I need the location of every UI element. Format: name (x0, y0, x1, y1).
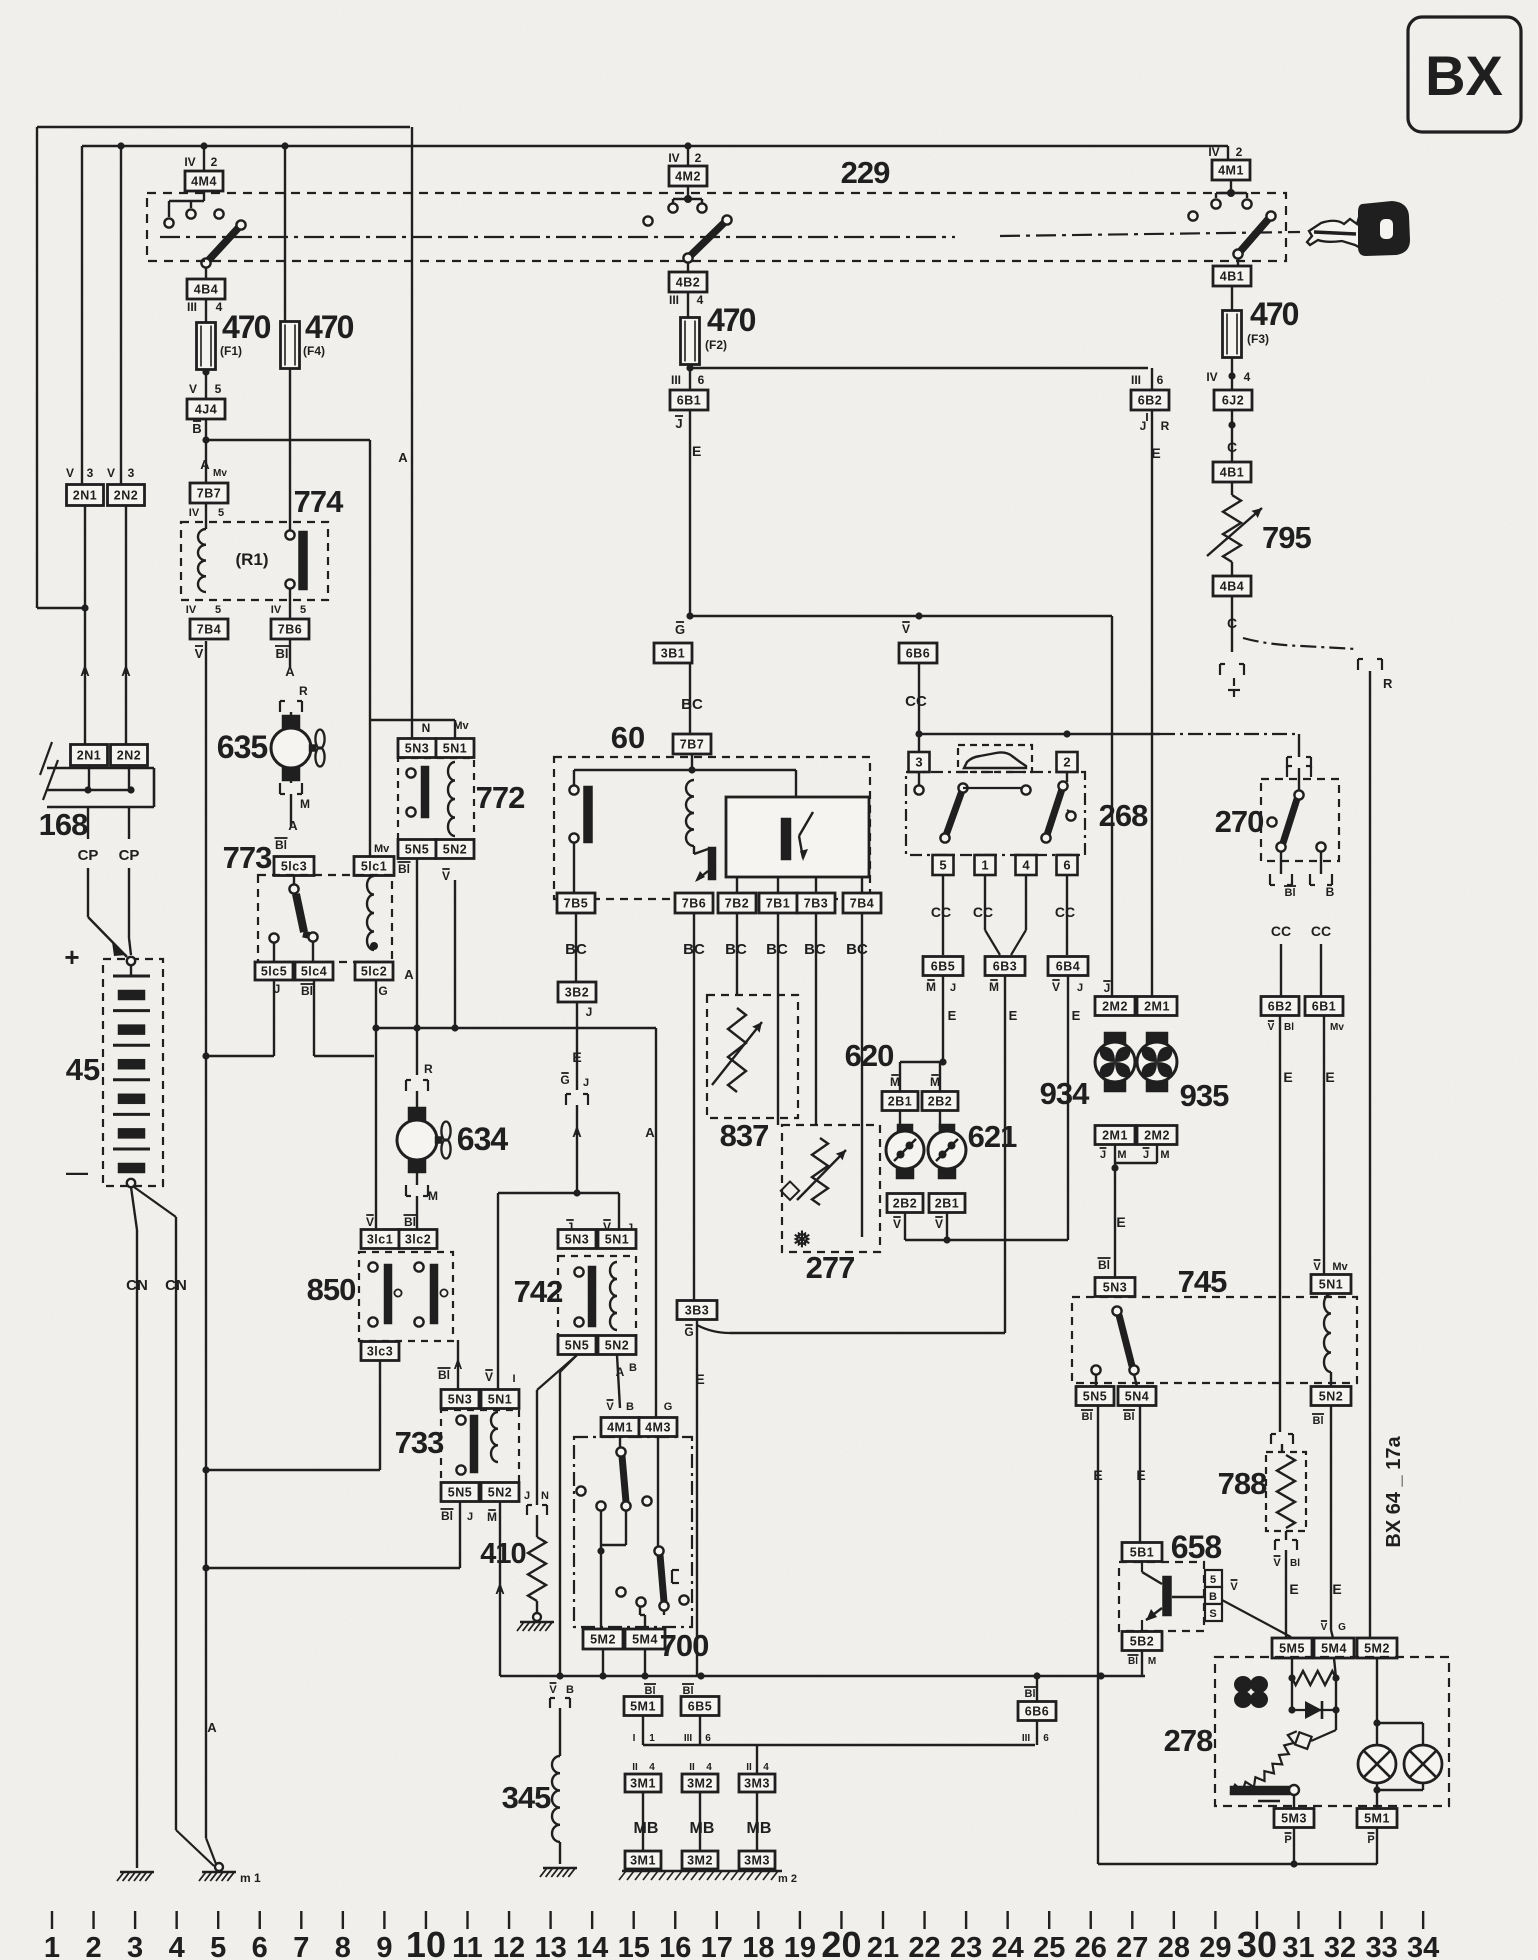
svg-text:837: 837 (720, 1118, 769, 1153)
svg-text:3M3: 3M3 (744, 1854, 770, 1868)
svg-text:C: C (1227, 439, 1237, 455)
svg-text:CC: CC (973, 904, 993, 920)
svg-text:m 2: m 2 (778, 1873, 797, 1885)
svg-text:4J4: 4J4 (195, 403, 217, 417)
svg-text:I: I (633, 1733, 636, 1744)
svg-text:3M1: 3M1 (630, 1854, 656, 1868)
svg-text:6: 6 (252, 1932, 268, 1960)
svg-text:2M2: 2M2 (1102, 1000, 1128, 1014)
svg-text:6B6: 6B6 (906, 647, 930, 661)
svg-text:❅: ❅ (793, 1227, 811, 1252)
svg-text:5M4: 5M4 (1321, 1642, 1347, 1656)
svg-text:5N1: 5N1 (443, 742, 467, 756)
svg-text:V: V (366, 1215, 374, 1229)
svg-text:3M2: 3M2 (687, 1777, 713, 1791)
svg-text:621: 621 (968, 1119, 1017, 1154)
svg-text:5: 5 (300, 604, 306, 616)
svg-text:7B1: 7B1 (766, 897, 790, 911)
svg-text:4: 4 (649, 1762, 655, 1773)
svg-text:268: 268 (1099, 798, 1148, 833)
svg-text:R: R (1161, 419, 1170, 433)
svg-text:24: 24 (992, 1932, 1024, 1960)
svg-text:G: G (560, 1073, 569, 1087)
svg-text:IV: IV (1206, 370, 1217, 384)
svg-text:2: 2 (211, 155, 218, 169)
svg-text:3B3: 3B3 (685, 1304, 709, 1318)
svg-text:V: V (1268, 1022, 1275, 1033)
svg-text:A: A (288, 818, 298, 833)
svg-text:B: B (1209, 1591, 1217, 1603)
svg-text:5N5: 5N5 (448, 1486, 472, 1500)
svg-text:13: 13 (534, 1932, 566, 1960)
svg-text:M: M (926, 980, 936, 994)
svg-text:G: G (1338, 1622, 1346, 1633)
svg-text:5N2: 5N2 (488, 1486, 512, 1500)
svg-text:J: J (1077, 982, 1083, 994)
svg-text:5lc1: 5lc1 (361, 860, 387, 874)
svg-text:7B3: 7B3 (804, 897, 828, 911)
svg-text:N: N (422, 721, 431, 735)
svg-text:1: 1 (649, 1733, 655, 1744)
svg-text:2N2: 2N2 (114, 489, 138, 503)
svg-text:Bl: Bl (301, 984, 313, 998)
svg-text:28: 28 (1158, 1932, 1190, 1960)
svg-text:634: 634 (457, 1121, 509, 1157)
svg-text:6B1: 6B1 (677, 394, 701, 408)
svg-text:—: — (66, 1160, 88, 1185)
svg-text:32: 32 (1324, 1932, 1356, 1960)
svg-text:Bl: Bl (1128, 1656, 1138, 1667)
svg-text:V: V (442, 869, 450, 883)
svg-text:7B5: 7B5 (564, 897, 588, 911)
svg-text:5B1: 5B1 (1130, 1546, 1154, 1560)
svg-text:Bl: Bl (1098, 1258, 1110, 1272)
svg-text:3B2: 3B2 (565, 986, 589, 1000)
svg-text:7B4: 7B4 (850, 897, 874, 911)
svg-text:6: 6 (1063, 858, 1070, 873)
svg-text:6B2: 6B2 (1138, 394, 1162, 408)
svg-text:E: E (1072, 1008, 1081, 1023)
svg-text:M: M (1117, 1149, 1126, 1161)
svg-text:5N5: 5N5 (565, 1339, 589, 1353)
svg-text:V: V (1321, 1622, 1328, 1633)
svg-text:470: 470 (707, 302, 756, 338)
svg-text:4M4: 4M4 (191, 175, 217, 189)
svg-text:31: 31 (1282, 1932, 1314, 1960)
svg-text:Mv: Mv (213, 468, 227, 479)
svg-text:B: B (1326, 885, 1335, 899)
svg-text:M: M (428, 1189, 438, 1203)
svg-text:Bl: Bl (1124, 1411, 1135, 1423)
svg-text:658: 658 (1171, 1529, 1222, 1565)
svg-text:V: V (107, 466, 115, 480)
svg-text:168: 168 (39, 807, 88, 842)
svg-text:470: 470 (305, 309, 354, 345)
svg-text:6J2: 6J2 (1222, 394, 1244, 408)
svg-text:R: R (1383, 676, 1393, 691)
svg-text:5M4: 5M4 (632, 1633, 658, 1647)
svg-text:745: 745 (1178, 1264, 1227, 1299)
svg-text:E: E (1151, 445, 1160, 461)
svg-text:850: 850 (307, 1272, 356, 1307)
svg-text:III: III (671, 373, 681, 387)
svg-text:2B1: 2B1 (935, 1197, 959, 1211)
svg-text:R: R (424, 1062, 433, 1076)
svg-text:17: 17 (701, 1932, 733, 1960)
svg-text:4M1: 4M1 (607, 1421, 633, 1435)
svg-text:V: V (189, 382, 197, 396)
svg-text:J: J (586, 1005, 593, 1019)
svg-text:4M3: 4M3 (645, 1421, 671, 1435)
svg-text:5B2: 5B2 (1130, 1635, 1154, 1649)
svg-text:60: 60 (611, 720, 645, 755)
svg-text:V: V (1313, 1261, 1321, 1273)
svg-text:700: 700 (660, 1628, 709, 1663)
svg-text:BX 64 _ 17a: BX 64 _ 17a (1383, 1436, 1405, 1548)
svg-text:(F4): (F4) (303, 344, 325, 358)
svg-text:V: V (549, 1684, 557, 1696)
svg-text:Bl: Bl (1284, 1022, 1294, 1033)
svg-text:A: A (645, 1125, 655, 1140)
svg-text:29: 29 (1199, 1932, 1231, 1960)
svg-text:III: III (1131, 373, 1141, 387)
svg-text:A: A (495, 1582, 505, 1597)
svg-text:9: 9 (376, 1932, 392, 1960)
svg-text:774: 774 (294, 484, 344, 519)
svg-text:E: E (1283, 1069, 1292, 1085)
svg-text:30: 30 (1237, 1924, 1277, 1960)
svg-text:J: J (1104, 981, 1111, 995)
svg-text:2B2: 2B2 (928, 1095, 952, 1109)
svg-text:IV: IV (271, 604, 282, 616)
svg-text:M: M (1148, 1656, 1156, 1667)
svg-text:E: E (1009, 1008, 1018, 1023)
svg-text:5N3: 5N3 (448, 1393, 472, 1407)
svg-text:5N5: 5N5 (405, 843, 429, 857)
svg-text:V: V (1230, 1581, 1238, 1593)
svg-text:M: M (989, 980, 999, 994)
svg-text:CN: CN (165, 1277, 187, 1294)
svg-text:Bl: Bl (1290, 1558, 1300, 1569)
svg-text:34: 34 (1407, 1932, 1439, 1960)
svg-text:5N1: 5N1 (488, 1393, 512, 1407)
svg-text:M: M (300, 797, 310, 811)
svg-text:4: 4 (706, 1762, 712, 1773)
svg-text:470: 470 (222, 309, 271, 345)
svg-text:1: 1 (44, 1932, 60, 1960)
svg-text:26: 26 (1075, 1932, 1107, 1960)
svg-text:7B7: 7B7 (680, 738, 704, 752)
svg-text:E: E (1116, 1214, 1125, 1230)
svg-text:7B4: 7B4 (197, 623, 221, 637)
svg-text:23: 23 (950, 1932, 982, 1960)
svg-text:IV: IV (189, 507, 200, 519)
svg-text:(R1): (R1) (235, 550, 268, 569)
svg-text:V: V (485, 1370, 493, 1384)
svg-text:+: + (64, 942, 79, 972)
svg-text:5lc4: 5lc4 (301, 965, 327, 979)
svg-text:620: 620 (845, 1038, 894, 1073)
svg-text:18: 18 (742, 1932, 774, 1960)
svg-text:5N2: 5N2 (443, 843, 467, 857)
svg-text:10: 10 (406, 1924, 446, 1960)
svg-text:470: 470 (1250, 296, 1299, 332)
svg-text:IV: IV (1208, 145, 1219, 159)
svg-text:2: 2 (695, 151, 702, 165)
svg-text:E: E (692, 443, 701, 459)
svg-text:II: II (746, 1762, 752, 1773)
svg-text:934: 934 (1040, 1076, 1090, 1111)
svg-text:V: V (195, 646, 204, 661)
svg-text:A: A (404, 967, 414, 982)
svg-text:277: 277 (806, 1250, 855, 1285)
svg-text:2N1: 2N1 (73, 489, 97, 503)
svg-text:6: 6 (1043, 1733, 1049, 1744)
svg-text:Bl: Bl (438, 1368, 450, 1382)
svg-text:B: B (192, 421, 201, 436)
svg-text:Bl: Bl (404, 1215, 416, 1229)
svg-text:6B2: 6B2 (1268, 1000, 1292, 1014)
svg-text:III: III (1022, 1733, 1031, 1744)
svg-text:2N1: 2N1 (77, 749, 101, 763)
svg-text:E: E (572, 1049, 581, 1065)
svg-text:2: 2 (85, 1932, 101, 1960)
svg-text:7: 7 (293, 1932, 309, 1960)
svg-text:7B6: 7B6 (682, 897, 706, 911)
svg-text:IV: IV (668, 151, 679, 165)
svg-text:BC: BC (846, 941, 868, 958)
svg-text:5N1: 5N1 (605, 1233, 629, 1247)
svg-text:773: 773 (223, 840, 272, 875)
svg-text:6B5: 6B5 (688, 1700, 712, 1714)
svg-text:5N3: 5N3 (565, 1233, 589, 1247)
svg-text:5: 5 (215, 604, 221, 616)
svg-text:5N4: 5N4 (1125, 1390, 1149, 1404)
svg-text:6: 6 (705, 1733, 711, 1744)
svg-text:3: 3 (128, 466, 135, 480)
svg-text:J: J (467, 1511, 473, 1523)
svg-text:5: 5 (218, 507, 224, 519)
svg-text:V: V (902, 622, 910, 636)
svg-text:(F1): (F1) (220, 344, 242, 358)
svg-text:2: 2 (1063, 755, 1070, 770)
svg-text:m 1: m 1 (240, 1871, 261, 1885)
svg-text:Mv: Mv (1330, 1022, 1344, 1033)
svg-text:410: 410 (480, 1538, 525, 1570)
svg-text:V: V (606, 1401, 614, 1413)
svg-text:E: E (948, 1008, 957, 1023)
svg-text:J: J (675, 416, 682, 431)
svg-text:CC: CC (931, 904, 951, 920)
svg-text:V: V (1052, 980, 1060, 994)
svg-text:G: G (378, 984, 387, 998)
svg-text:5M1: 5M1 (630, 1700, 656, 1714)
svg-text:M: M (487, 1510, 497, 1524)
svg-text:33: 33 (1365, 1932, 1397, 1960)
svg-text:MB: MB (634, 1820, 659, 1837)
svg-text:Bl: Bl (398, 862, 410, 876)
svg-text:J: J (1140, 419, 1147, 433)
svg-text:229: 229 (841, 155, 890, 190)
svg-text:4B4: 4B4 (194, 283, 218, 297)
svg-text:5: 5 (1210, 1574, 1216, 1586)
svg-text:6B1: 6B1 (1312, 1000, 1336, 1014)
svg-text:733: 733 (395, 1425, 444, 1460)
svg-text:742: 742 (514, 1274, 563, 1309)
svg-text:5N5: 5N5 (1083, 1390, 1107, 1404)
svg-text:P: P (1367, 1834, 1374, 1846)
svg-text:V: V (1273, 1557, 1281, 1569)
svg-text:BX: BX (1425, 44, 1503, 107)
svg-text:C: C (1227, 615, 1237, 631)
svg-text:Bl: Bl (275, 838, 287, 852)
svg-text:Bl: Bl (441, 1509, 453, 1523)
svg-text:7B6: 7B6 (278, 623, 302, 637)
svg-text:4: 4 (169, 1932, 185, 1960)
svg-text:A: A (121, 664, 131, 679)
svg-text:795: 795 (1262, 520, 1311, 555)
svg-text:N: N (541, 1490, 549, 1502)
svg-text:G: G (664, 1401, 673, 1413)
svg-text:A: A (285, 664, 295, 679)
svg-text:6: 6 (698, 373, 705, 387)
svg-text:CP: CP (119, 847, 140, 864)
svg-text:III: III (669, 293, 679, 307)
svg-text:3: 3 (127, 1932, 143, 1960)
svg-text:BC: BC (681, 696, 703, 713)
svg-text:R: R (299, 684, 308, 698)
svg-text:2B1: 2B1 (888, 1095, 912, 1109)
svg-text:27: 27 (1116, 1932, 1148, 1960)
svg-text:E: E (1332, 1581, 1341, 1597)
svg-text:6B6: 6B6 (1025, 1705, 1049, 1719)
svg-text:J: J (950, 982, 956, 994)
svg-text:22: 22 (908, 1932, 940, 1960)
svg-text:J: J (1143, 1149, 1149, 1161)
svg-text:788: 788 (1218, 1466, 1267, 1501)
svg-text:2B2: 2B2 (893, 1197, 917, 1211)
svg-text:Mv: Mv (374, 843, 390, 855)
svg-text:5lc3: 5lc3 (281, 860, 307, 874)
svg-text:14: 14 (576, 1932, 608, 1960)
svg-text:P: P (1284, 1834, 1291, 1846)
svg-text:G: G (675, 622, 685, 637)
svg-text:3B1: 3B1 (661, 647, 685, 661)
svg-text:19: 19 (784, 1932, 816, 1960)
svg-text:IV: IV (186, 604, 197, 616)
svg-text:II: II (689, 1762, 695, 1773)
svg-text:6: 6 (1157, 373, 1164, 387)
svg-text:V: V (935, 1217, 943, 1231)
svg-text:M: M (930, 1075, 940, 1089)
svg-text:4B1: 4B1 (1220, 270, 1244, 284)
svg-text:7B2: 7B2 (725, 897, 749, 911)
svg-text:3: 3 (915, 755, 922, 770)
svg-text:CC: CC (1055, 904, 1075, 920)
svg-text:MB: MB (690, 1820, 715, 1837)
svg-text:Bl: Bl (276, 646, 289, 661)
svg-text:772: 772 (476, 780, 525, 815)
svg-text:B: B (566, 1684, 574, 1696)
svg-text:5N2: 5N2 (1319, 1390, 1343, 1404)
svg-text:21: 21 (867, 1932, 899, 1960)
svg-text:V: V (893, 1217, 901, 1231)
svg-text:CC: CC (1311, 923, 1331, 939)
svg-text:A: A (572, 1125, 582, 1140)
svg-text:B: B (629, 1362, 637, 1374)
svg-text:A: A (207, 1720, 217, 1735)
svg-text:5M2: 5M2 (590, 1633, 616, 1647)
svg-text:5M2: 5M2 (1364, 1642, 1390, 1656)
svg-text:J: J (524, 1490, 530, 1502)
svg-text:5M1: 5M1 (1364, 1812, 1390, 1826)
svg-text:3M2: 3M2 (687, 1854, 713, 1868)
svg-text:4M1: 4M1 (1218, 164, 1244, 178)
svg-text:4: 4 (697, 293, 704, 307)
svg-text:5N2: 5N2 (605, 1339, 629, 1353)
svg-text:CC: CC (1271, 923, 1291, 939)
svg-text:4B1: 4B1 (1220, 466, 1244, 480)
svg-text:3lc1: 3lc1 (367, 1233, 393, 1247)
svg-text:3: 3 (87, 466, 94, 480)
svg-text:A: A (398, 450, 408, 465)
svg-text:B: B (626, 1401, 634, 1413)
svg-text:5lc2: 5lc2 (361, 965, 387, 979)
svg-text:5N1: 5N1 (1319, 1278, 1343, 1292)
svg-text:270: 270 (1215, 804, 1264, 839)
svg-text:MB: MB (747, 1820, 772, 1837)
svg-text:4: 4 (763, 1762, 769, 1773)
svg-text:4B2: 4B2 (676, 276, 700, 290)
svg-text:IV: IV (184, 155, 195, 169)
svg-text:3M3: 3M3 (744, 1777, 770, 1791)
svg-text:Bl: Bl (1082, 1411, 1093, 1423)
svg-text:III: III (684, 1733, 693, 1744)
svg-text:5lc5: 5lc5 (261, 965, 287, 979)
svg-text:A: A (200, 457, 210, 472)
svg-text:8: 8 (335, 1932, 351, 1960)
svg-text:M: M (1160, 1149, 1169, 1161)
svg-text:S: S (1209, 1608, 1216, 1620)
svg-text:278: 278 (1164, 1723, 1213, 1758)
svg-text:4B4: 4B4 (1220, 580, 1244, 594)
svg-text:25: 25 (1033, 1932, 1065, 1960)
svg-text:CC: CC (905, 693, 927, 710)
svg-text:Bl: Bl (1025, 1688, 1036, 1700)
svg-text:Bl: Bl (1285, 887, 1296, 899)
svg-text:M: M (890, 1075, 900, 1089)
svg-text:J: J (1100, 1149, 1106, 1161)
svg-text:E: E (1289, 1581, 1298, 1597)
svg-text:5N3: 5N3 (1103, 1281, 1127, 1295)
svg-text:7B7: 7B7 (197, 487, 221, 501)
svg-text:12: 12 (493, 1932, 525, 1960)
svg-text:345: 345 (502, 1780, 551, 1815)
svg-text:5: 5 (939, 858, 946, 873)
svg-text:G: G (684, 1325, 693, 1339)
svg-text:E: E (1325, 1069, 1334, 1085)
svg-text:16: 16 (659, 1932, 691, 1960)
svg-text:2M1: 2M1 (1144, 1000, 1170, 1014)
svg-text:45: 45 (66, 1052, 100, 1087)
svg-text:CN: CN (126, 1277, 148, 1294)
svg-text:15: 15 (618, 1932, 650, 1960)
svg-text:2N2: 2N2 (117, 749, 141, 763)
svg-text:V: V (66, 466, 74, 480)
svg-text:2M2: 2M2 (1144, 1129, 1170, 1143)
svg-text:CP: CP (78, 847, 99, 864)
svg-text:A: A (80, 664, 90, 679)
